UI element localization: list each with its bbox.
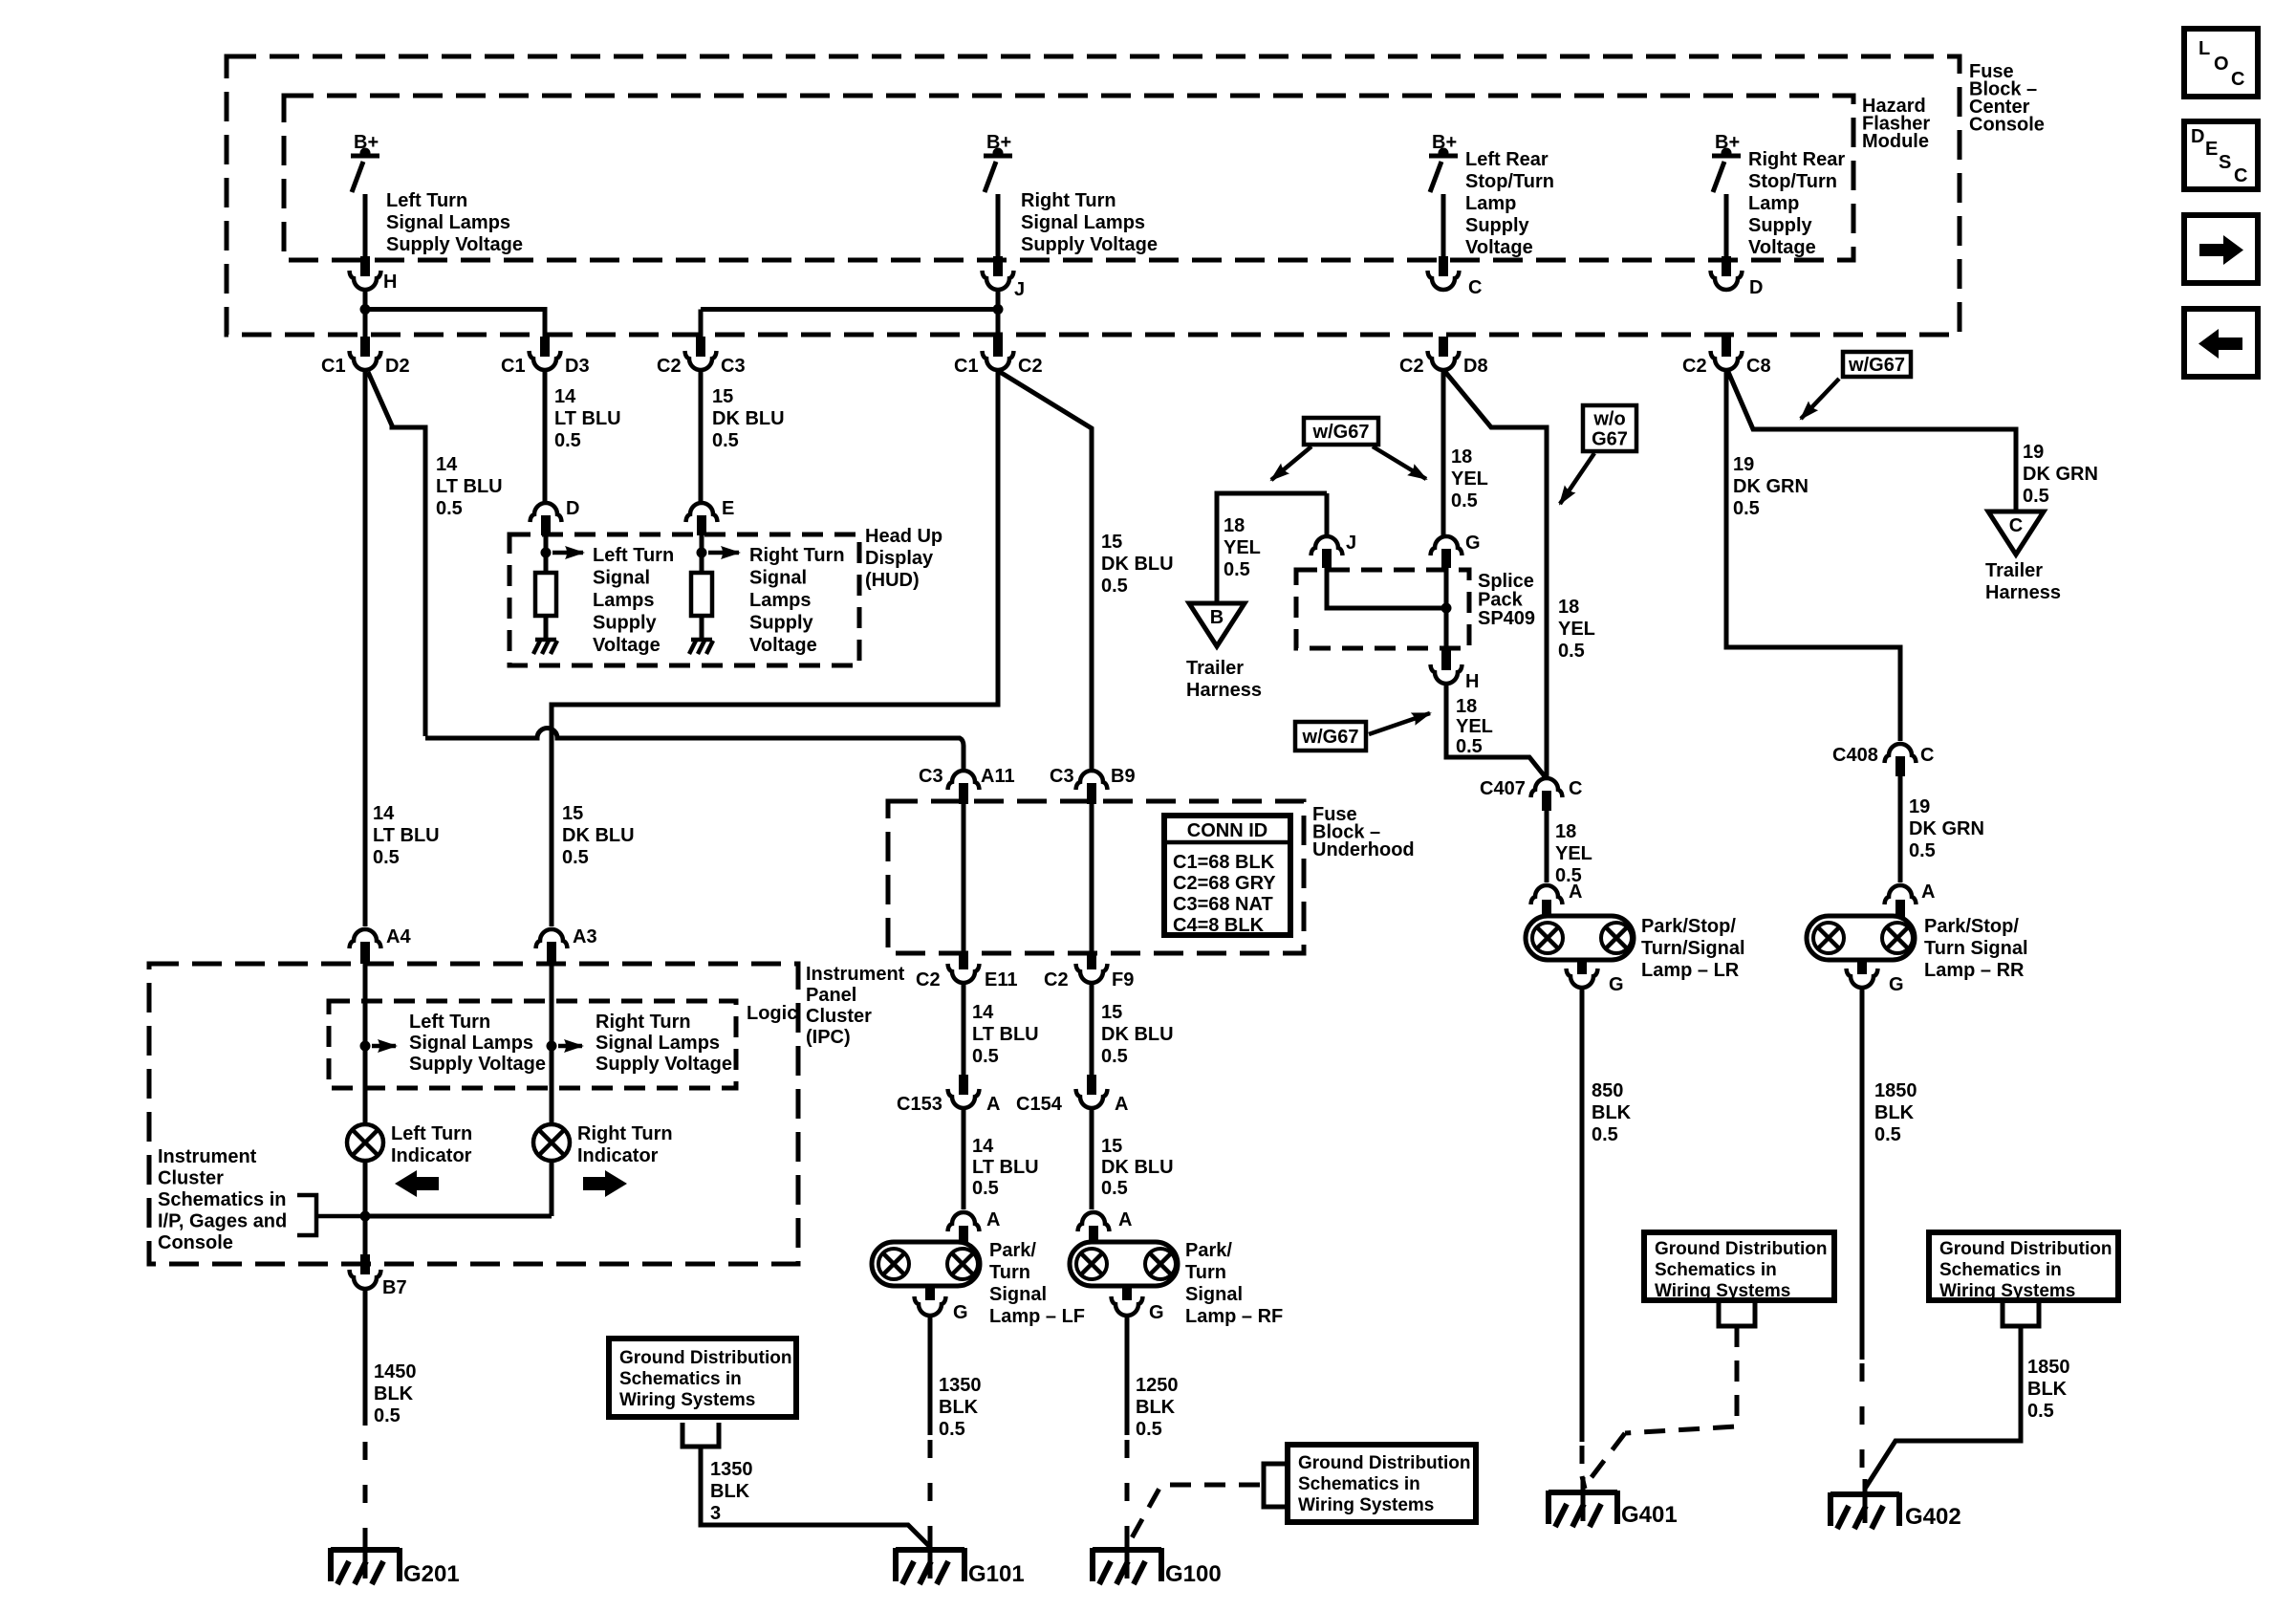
stub below A3 — [547, 942, 556, 964]
stub below E — [697, 515, 706, 535]
svg-text:C2: C2 — [1682, 356, 1707, 377]
junction IPC bottom — [360, 1211, 371, 1222]
svg-text:C2: C2 — [1018, 356, 1043, 377]
junction node below H — [360, 304, 371, 315]
bracket to instrument cluster schematics — [297, 1195, 362, 1235]
indicator bulb right turn — [533, 1124, 570, 1161]
arrow to Left Turn signal text — [552, 551, 583, 555]
svg-text:D: D — [1749, 277, 1763, 298]
svg-text:D3: D3 — [565, 356, 590, 377]
svg-text:J: J — [1346, 533, 1356, 554]
junction logic left — [360, 1041, 371, 1052]
svg-text:C: C — [2234, 165, 2247, 186]
arrow logic right — [558, 1044, 582, 1049]
connector C2/E11 — [948, 964, 980, 983]
svg-text:C2: C2 — [1044, 969, 1069, 991]
ground G201 — [331, 1535, 400, 1584]
bracket below G402 GD box — [2003, 1300, 2039, 1326]
wire D8 diagonal to w/o G67 drop (18 YEL) — [1445, 372, 1547, 776]
wire branch up from J splice — [1325, 493, 1330, 536]
connector D (HUD) — [531, 503, 562, 522]
svg-text:C2: C2 — [1399, 356, 1424, 377]
wire J splice to SP409 junction — [1327, 568, 1446, 608]
svg-text:w/G67: w/G67 — [1302, 727, 1359, 748]
stub into fuse block connector — [993, 337, 1003, 357]
wire C408 to A (19 DK GRN) — [1898, 776, 1903, 882]
indicator bulb left turn — [347, 1124, 383, 1161]
svg-text:O: O — [2214, 54, 2229, 75]
stub into fuse block connector — [1722, 337, 1731, 357]
Ground Distribution box (center, to G100) — [1288, 1445, 1476, 1522]
wire C2 diagonal to x1142 drop (15 DK BLU) — [1000, 372, 1092, 770]
wire B7 down (1450 BLK) — [363, 1290, 368, 1426]
bracket below G401 GD box — [1719, 1300, 1755, 1326]
svg-text:A: A — [1569, 882, 1582, 903]
wire D to resistor — [544, 535, 549, 573]
Ground Distribution box (above G401) — [1644, 1232, 1834, 1301]
connector A (LR lamp) — [1531, 885, 1563, 904]
wire junction to D3 drop — [365, 310, 545, 337]
wire D3 to D (14 LT BLU) — [543, 370, 548, 504]
wire to G201 dashed — [363, 1442, 368, 1541]
connector C2/D8 (fuse block) — [1428, 351, 1460, 370]
connector C2/F9 — [1076, 964, 1108, 983]
wire LR into G401 — [1582, 1476, 1585, 1489]
svg-text:D2: D2 — [385, 356, 410, 377]
arrow w/G67 to trailer branch — [1271, 446, 1311, 480]
svg-text:B: B — [1210, 607, 1224, 628]
B+ feed (left rear) — [1429, 132, 1458, 192]
B+ feed (right rear) — [1712, 132, 1741, 192]
stub into J — [993, 256, 1003, 276]
svg-text:A3: A3 — [573, 926, 597, 947]
svg-text:G201: G201 — [403, 1561, 460, 1587]
connector C407/C — [1531, 778, 1563, 797]
stub into H splice — [1441, 650, 1451, 670]
stub below B9 — [1087, 783, 1096, 804]
wire B+ left turn down — [363, 194, 368, 256]
Head Up Display (HUD) dashed box — [509, 534, 859, 665]
svg-text:G: G — [1465, 533, 1481, 554]
wire E to resistor — [700, 535, 704, 573]
svg-text:A: A — [1118, 1209, 1132, 1230]
wire drop to C3 — [699, 310, 704, 337]
svg-text:S: S — [2219, 152, 2231, 173]
stub into fuse block connector — [1439, 337, 1448, 357]
connector J (hazard flasher module) — [983, 271, 1014, 290]
arrow w/o G67 to wire — [1560, 453, 1594, 504]
connector C3/A11 (fuse block underhood) — [948, 771, 980, 790]
svg-text:E: E — [722, 498, 734, 519]
stub into H — [360, 256, 370, 276]
dashed wire from GD box to G401 — [1586, 1326, 1737, 1485]
wire junction to C3 drop — [701, 307, 998, 312]
svg-text:G402: G402 — [1905, 1504, 1961, 1530]
wire resistor to ground — [544, 616, 549, 635]
wire A3 to right indicator — [550, 964, 554, 1124]
svg-text:D8: D8 — [1463, 356, 1488, 377]
connector E (HUD) — [686, 503, 718, 522]
Fuse Block - Underhood dashed box — [888, 801, 1304, 953]
wire LF ground (1350 BLK) — [928, 1317, 933, 1435]
junction logic right — [547, 1041, 557, 1052]
svg-text:E: E — [2205, 139, 2218, 160]
connector D (hazard flasher module) — [1711, 271, 1743, 290]
dashed wire from center GD box to G100 — [1129, 1485, 1260, 1543]
label box: w/G67 (splice feeds) — [1304, 418, 1378, 445]
svg-text:D: D — [566, 498, 579, 519]
connector C408/C — [1885, 744, 1917, 763]
lamp: Park/Turn Signal Lamp - RF — [1070, 1226, 1178, 1300]
wire right indicator to junction — [365, 1214, 552, 1219]
svg-text:Left TurnIndicator: Left TurnIndicator — [391, 1123, 472, 1166]
LOC legend box — [2184, 29, 2258, 97]
stub above E11 — [959, 953, 968, 969]
lamp: Park/Stop/Turn Signal Lamp - LR — [1526, 900, 1634, 974]
connector G (LR lamp) — [1567, 969, 1598, 988]
connector J (splice pack) — [1311, 536, 1343, 555]
connector C154/A — [1076, 1089, 1108, 1108]
stub below C407 — [1542, 791, 1551, 811]
svg-text:C407: C407 — [1480, 778, 1526, 799]
svg-text:B+: B+ — [1715, 132, 1740, 153]
wire RR ground dashed — [1860, 1363, 1865, 1477]
svg-text:A4: A4 — [386, 926, 411, 947]
Splice Pack SP409 dashed box — [1296, 570, 1469, 648]
connector A3 (IPC) — [536, 929, 568, 948]
svg-text:B9: B9 — [1111, 766, 1136, 787]
stub into fuse block connector — [360, 337, 370, 357]
svg-text:C1: C1 — [954, 356, 979, 377]
label box: w/o G67 — [1583, 405, 1636, 451]
resistor (HUD left) — [535, 573, 556, 616]
svg-text:w/G67: w/G67 — [1312, 422, 1370, 443]
wire A11 to E11 inside fuse block — [962, 804, 966, 953]
bracket left of center GD box — [1264, 1464, 1288, 1507]
DESC legend box — [2184, 121, 2258, 189]
resistor (HUD right) — [691, 573, 712, 616]
svg-text:C: C — [2231, 69, 2244, 90]
lamp: Park/Turn Signal Lamp - LF — [872, 1226, 980, 1300]
svg-text:C3: C3 — [1050, 766, 1074, 787]
wire F9 to C154 (15 DK BLU) — [1090, 983, 1094, 1075]
svg-text:Park/Stop/Turn/SignalLamp – LR: Park/Stop/Turn/SignalLamp – LR — [1641, 916, 1745, 981]
svg-text:A: A — [1115, 1094, 1128, 1115]
wire C407 to A (18 YEL) — [1545, 811, 1549, 882]
right direction arrow symbol — [583, 1170, 627, 1197]
svg-text:w/oG67: w/oG67 — [1592, 409, 1628, 450]
connector G (RR lamp) — [1847, 969, 1878, 988]
Logic dashed box — [329, 1001, 736, 1088]
svg-text:HazardFlasherModule: HazardFlasherModule — [1862, 96, 1930, 152]
svg-text:C154: C154 — [1016, 1094, 1063, 1115]
stub below A11 — [959, 783, 968, 804]
svg-text:G: G — [1889, 974, 1904, 995]
arrow w/G67 to C8 wire — [1801, 379, 1839, 419]
svg-text:G: G — [1149, 1302, 1164, 1323]
svg-text:G: G — [953, 1302, 968, 1323]
wire 1350 BLK 3 to G101 — [701, 1447, 929, 1546]
stub into fuse block connector — [696, 337, 705, 357]
svg-text:A: A — [986, 1209, 1000, 1230]
wire RF ground (1250 BLK) — [1125, 1317, 1130, 1435]
svg-text:G101: G101 — [968, 1561, 1025, 1587]
svg-text:C3: C3 — [721, 356, 746, 377]
wire C3 to E (15 DK BLU) — [699, 370, 704, 504]
stub into B7 — [360, 1254, 370, 1274]
svg-text:G401: G401 — [1621, 1502, 1678, 1528]
connector C1/C2 (fuse block) — [983, 351, 1014, 370]
svg-text:G100: G100 — [1165, 1561, 1222, 1587]
svg-text:C: C — [2009, 515, 2023, 536]
wire left indicator to B7 — [363, 1162, 368, 1254]
wire right indicator down — [550, 1162, 554, 1216]
svg-text:D: D — [2191, 126, 2204, 147]
B+ feed (left turn) — [351, 132, 379, 192]
svg-text:C2: C2 — [916, 969, 941, 991]
wire B+ right rear down — [1724, 194, 1729, 256]
wire RF ground dashed — [1125, 1440, 1130, 1543]
connector C3/B9 (fuse block underhood) — [1076, 771, 1108, 790]
bracket below left GD box — [682, 1423, 719, 1447]
connector A (LF lamp) — [948, 1212, 980, 1231]
svg-text:C: C — [1920, 745, 1934, 766]
svg-text:B+: B+ — [986, 132, 1011, 153]
connector G (splice pack) — [1431, 536, 1462, 555]
stub below A4 — [360, 942, 370, 964]
stub below C408 — [1895, 756, 1905, 776]
stub above C153 — [959, 1075, 968, 1095]
connector A4 (IPC) — [350, 929, 381, 948]
connector G (RF lamp) — [1112, 1296, 1143, 1316]
connector C1/D2 (fuse block) — [350, 351, 381, 370]
wire LR ground dashed — [1580, 1446, 1585, 1476]
connector C1/D3 (fuse block) — [530, 351, 561, 370]
svg-text:w/G67: w/G67 — [1848, 355, 1905, 376]
stub above F9 — [1087, 953, 1096, 969]
svg-text:B+: B+ — [1432, 132, 1457, 153]
svg-text:B+: B+ — [354, 132, 379, 153]
stub below D — [541, 515, 551, 535]
wire branch to trailer B — [1217, 493, 1327, 601]
svg-text:J: J — [1014, 279, 1025, 300]
ground G101 — [896, 1535, 964, 1584]
CONN ID table — [1164, 816, 1290, 936]
wire C153 to A LF (14 LT BLU) — [962, 1108, 966, 1209]
left-arrow legend box — [2184, 309, 2258, 377]
connector C (hazard flasher module) — [1428, 271, 1460, 290]
wire x447 horizontal to A11 with hop over x577 — [425, 729, 964, 771]
svg-text:C1: C1 — [321, 356, 346, 377]
wire B+ right turn down — [996, 194, 1001, 256]
wire D2 diagonal to x447 drop (14 LT BLU) — [368, 372, 425, 736]
wire C2 down, left, down to A3 (15 DK BLU) — [552, 370, 998, 926]
wire D8 down to G splice (18 YEL) — [1441, 370, 1446, 537]
svg-text:Park/Stop/Turn SignalLamp – RR: Park/Stop/Turn SignalLamp – RR — [1924, 916, 2028, 981]
stub into D — [1722, 256, 1731, 276]
Fuse Block - Center Console outer dashed box — [227, 56, 1960, 335]
connector C153/A — [948, 1089, 980, 1108]
connector H (splice pack out) — [1431, 664, 1462, 684]
stub into fuse block connector — [540, 337, 550, 357]
connector H (hazard flasher module) — [350, 271, 381, 290]
svg-text:C408: C408 — [1832, 745, 1878, 766]
Instrument Panel Cluster (IPC) dashed box — [149, 964, 798, 1264]
trailer harness terminal C — [1988, 512, 2044, 555]
junction at HUD right — [697, 548, 707, 558]
svg-text:G: G — [1609, 974, 1624, 995]
wire C8 down to C408 (19 DK GRN) — [1726, 370, 1900, 741]
ground G402 — [1830, 1479, 1899, 1529]
stub below G splice — [1441, 549, 1451, 568]
ground (HUD left) — [533, 633, 557, 654]
ground (HUD right) — [689, 633, 713, 654]
svg-text:C1=68 BLKC2=68 GRYC3=68 NATC4=: C1=68 BLKC2=68 GRYC3=68 NATC4=8 BLK — [1173, 852, 1276, 936]
Ground Distribution box (left) — [609, 1339, 796, 1417]
wire J to fuse box edge — [996, 290, 1001, 337]
label box: w/G67 (below splice) — [1295, 722, 1366, 751]
svg-text:A11: A11 — [981, 766, 1015, 787]
svg-text:H: H — [1465, 671, 1479, 692]
svg-text:C3: C3 — [919, 766, 943, 787]
ground G100 — [1093, 1535, 1161, 1584]
wire C8 to trailer C (19 DK GRN) — [1728, 372, 2016, 510]
Ground Distribution box (above G402) — [1929, 1232, 2118, 1301]
svg-text:Logic: Logic — [747, 1003, 797, 1024]
wire B9 to F9 inside fuse block — [1090, 804, 1094, 953]
wire B+ left rear down — [1441, 194, 1446, 256]
arrow logic left — [372, 1044, 396, 1049]
lamp: Park/Stop/Turn Signal Lamp - RR — [1807, 900, 1915, 974]
svg-text:C153: C153 — [897, 1094, 942, 1115]
stub below J splice — [1322, 549, 1332, 568]
svg-text:C8: C8 — [1746, 356, 1771, 377]
wire LF ground dashed — [928, 1440, 933, 1543]
Hazard Flasher Module inner dashed box — [284, 96, 1853, 260]
svg-text:L: L — [2199, 38, 2210, 59]
left direction arrow symbol — [395, 1170, 439, 1197]
wire C154 to A RF (15 DK BLU) — [1090, 1108, 1094, 1209]
connector G (LF lamp) — [915, 1296, 946, 1316]
svg-text:H: H — [383, 272, 397, 293]
connector C2/C3 (fuse block) — [685, 351, 717, 370]
right-arrow legend box — [2184, 215, 2258, 283]
svg-text:A: A — [1921, 882, 1935, 903]
wire 1850 BLK to G402 — [1865, 1326, 2021, 1489]
svg-text:CONN ID: CONN ID — [1187, 820, 1267, 841]
svg-text:E11: E11 — [985, 969, 1017, 991]
connector A (RR lamp) — [1885, 885, 1917, 904]
junction node below J — [993, 304, 1004, 315]
connector A (RF lamp) — [1078, 1212, 1110, 1231]
svg-text:C: C — [1569, 778, 1582, 799]
wire LR lamp ground (850 BLK) — [1580, 989, 1585, 1442]
svg-text:C2: C2 — [657, 356, 682, 377]
wire H down and over to C407 — [1446, 685, 1545, 776]
junction at HUD left — [541, 548, 552, 558]
junction SP409 — [1441, 603, 1452, 614]
stub into C — [1439, 256, 1448, 276]
ground G401 — [1549, 1477, 1617, 1527]
connector C2/C8 (fuse block) — [1711, 351, 1743, 370]
wire E11 to C153 (14 LT BLU) — [962, 983, 966, 1075]
svg-text:F9: F9 — [1112, 969, 1134, 991]
arrow w/G67 to H wire — [1369, 713, 1430, 734]
trailer harness terminal B — [1189, 603, 1245, 646]
connector B7 (IPC) — [350, 1270, 381, 1289]
label box: w/G67 (C8) — [1843, 352, 1911, 377]
stub above C154 — [1087, 1075, 1096, 1095]
svg-text:A: A — [986, 1094, 1000, 1115]
svg-text:C: C — [1468, 277, 1482, 298]
wire G splice through SP409 — [1444, 568, 1449, 650]
svg-text:B7: B7 — [382, 1277, 407, 1298]
arrow to Right Turn signal text — [708, 551, 739, 555]
wire H to fuse box edge — [363, 290, 368, 337]
svg-text:C1: C1 — [501, 356, 526, 377]
wire resistor to ground — [700, 616, 704, 635]
wire RR lamp ground (1850 BLK) — [1860, 989, 1865, 1360]
wire D2 down to A4 (14 LT BLU) — [363, 370, 368, 926]
arrow w/G67 to D8 wire — [1373, 446, 1426, 479]
wire A4 to left indicator — [363, 964, 368, 1124]
B+ feed (right turn) — [984, 132, 1012, 192]
